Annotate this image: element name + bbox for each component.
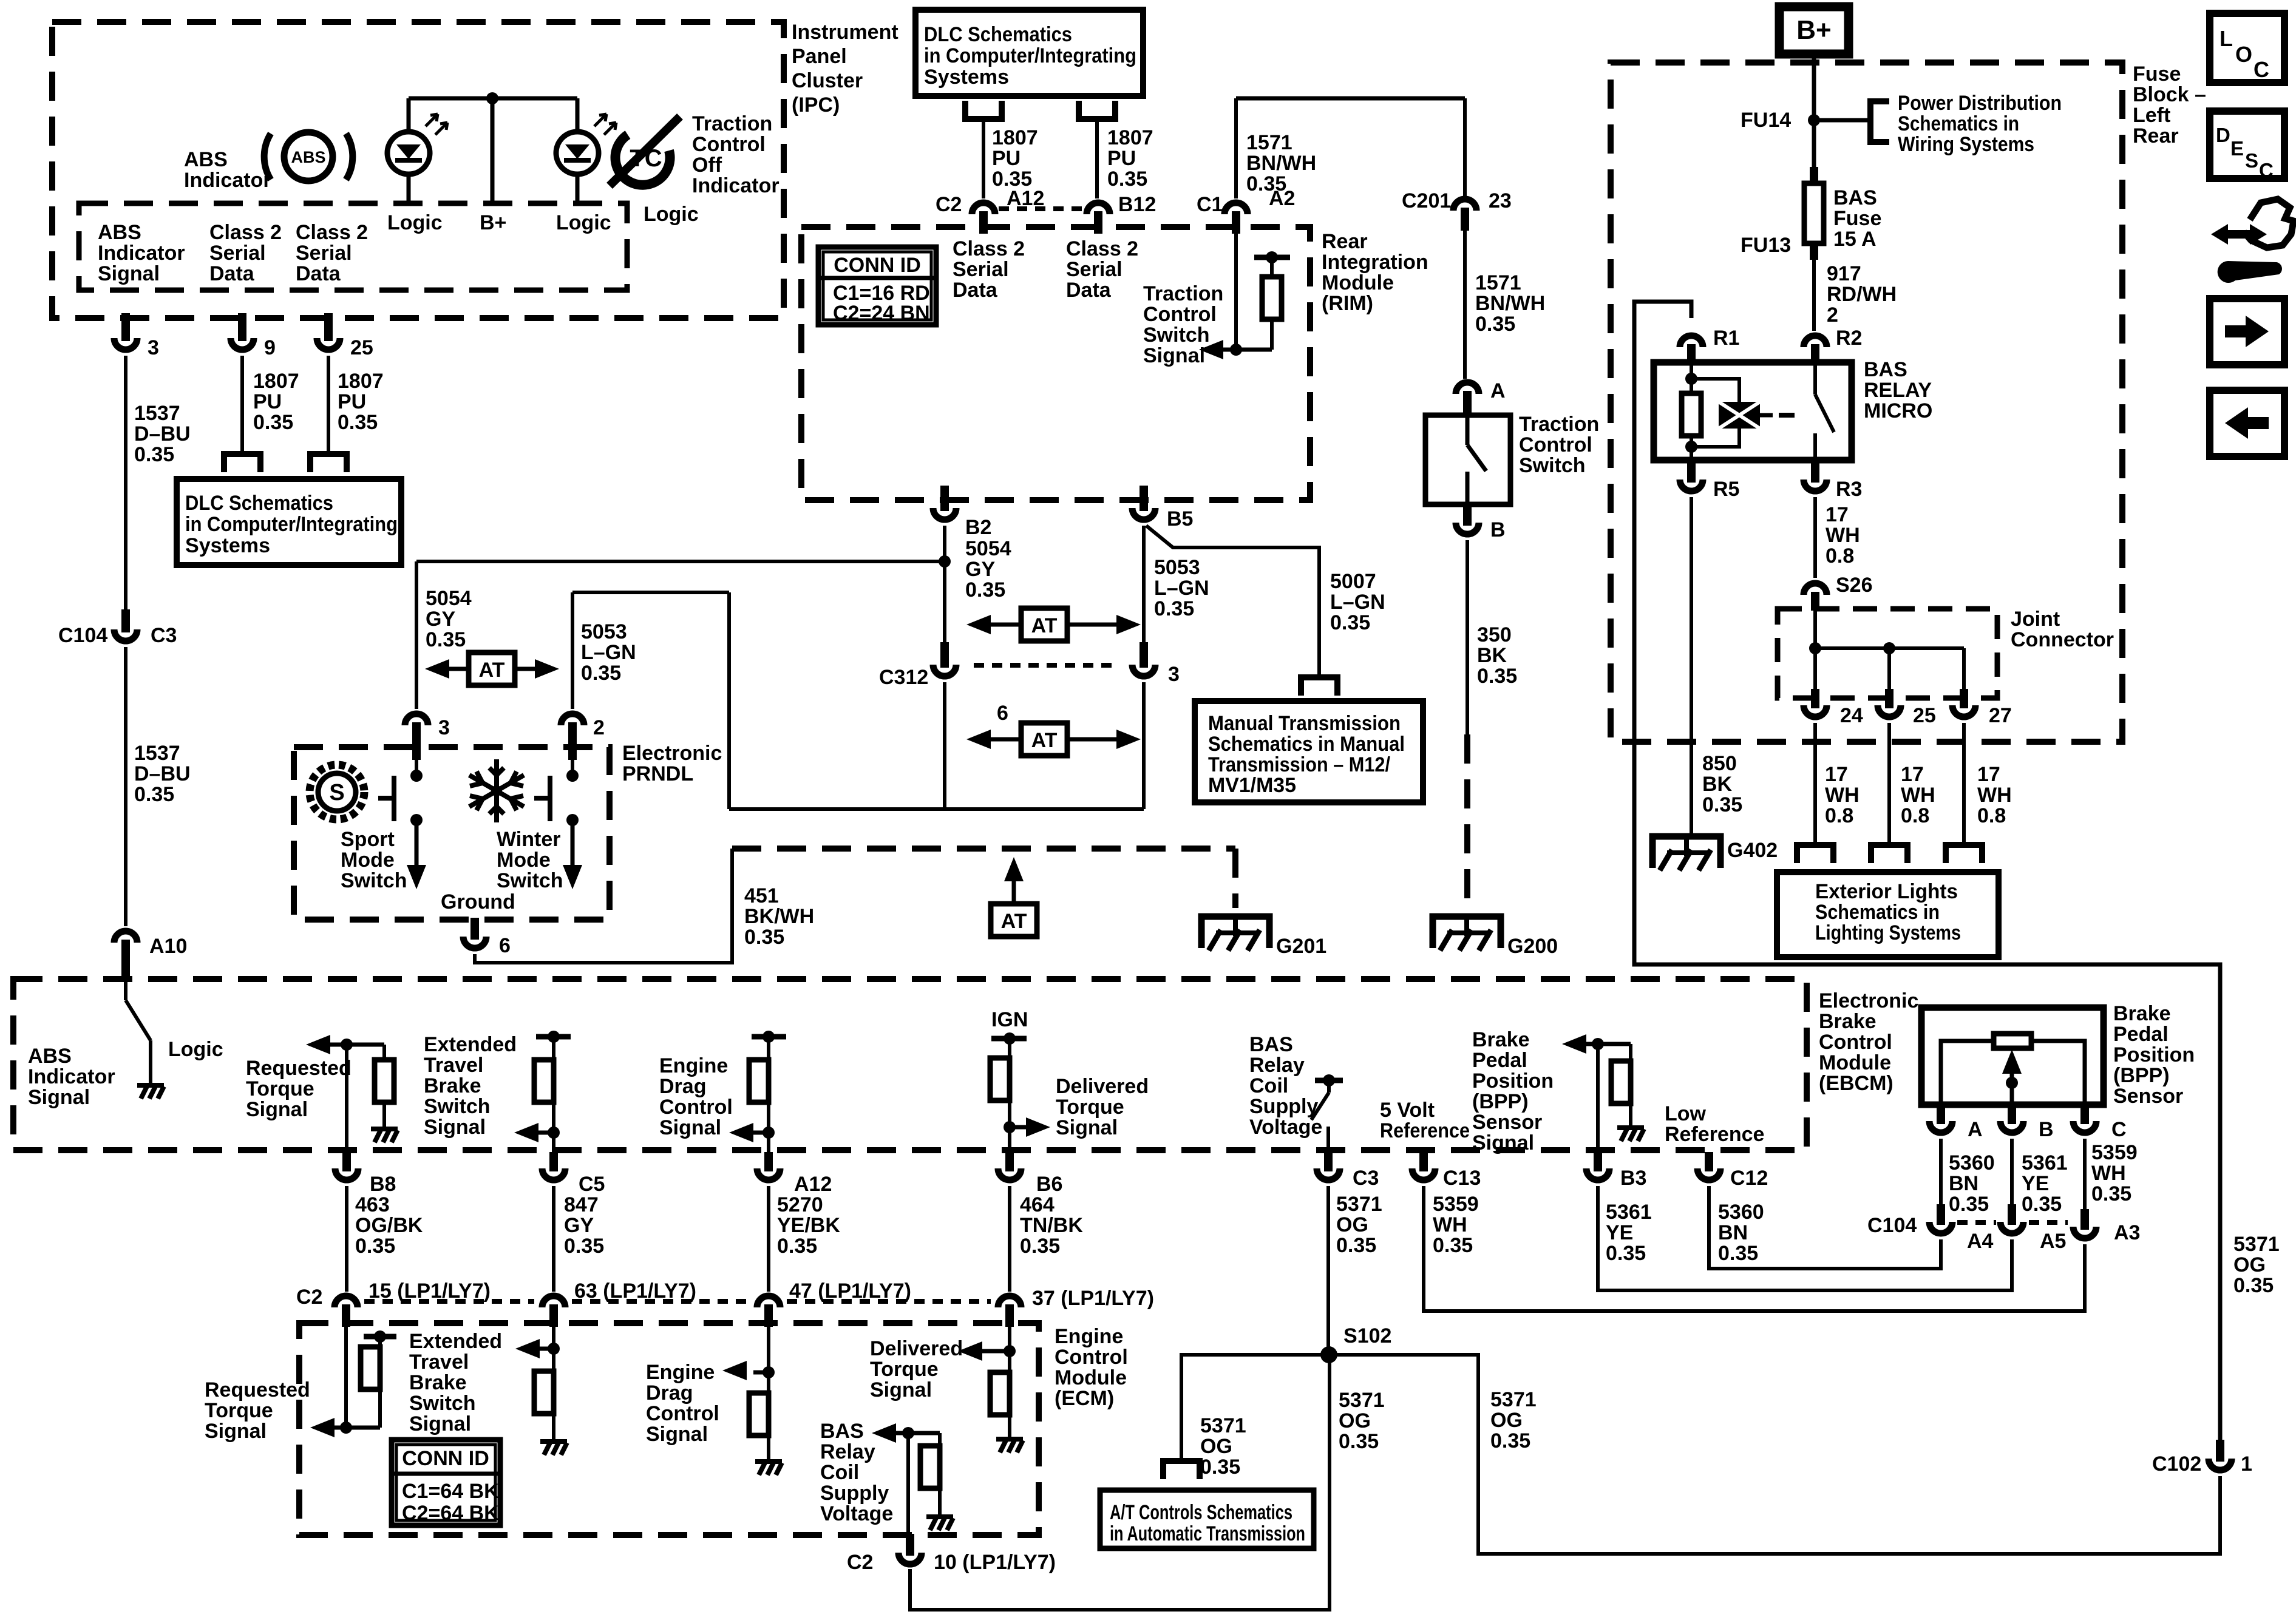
connector RIM pin B5 bbox=[1140, 486, 1148, 511]
wire 1571 BN/WH drop to C201 bbox=[1463, 98, 1467, 200]
ground G200 bbox=[1433, 917, 1501, 951]
connector EBCM pin A12 bbox=[764, 1152, 773, 1171]
svg-text:FU13: FU13 bbox=[1741, 234, 1791, 257]
off-page pointer bracket to DLC box (left) bbox=[224, 454, 260, 472]
BPP potentiometer bbox=[1941, 1041, 1994, 1105]
wire 1537 D-BU lower bbox=[124, 647, 127, 926]
connector interface line C2-B12 bbox=[999, 206, 1082, 211]
wire 1807 PU to C2/A12 bbox=[982, 119, 985, 198]
svg-text:Ground: Ground bbox=[441, 890, 515, 913]
svg-text:G201: G201 bbox=[1276, 935, 1326, 958]
CONN ID table (RIM) bbox=[818, 247, 936, 325]
svg-text:A: A bbox=[1490, 379, 1506, 402]
Engine Control Module (ECM) dashed box bbox=[299, 1323, 1039, 1535]
svg-text:C312: C312 bbox=[879, 666, 928, 689]
in-line connector C312 bbox=[974, 663, 1115, 668]
svg-text:10 (LP1/LY7): 10 (LP1/LY7) bbox=[934, 1551, 1056, 1574]
IPC inner connector dashed box bbox=[79, 203, 627, 290]
svg-text:C: C bbox=[2111, 1118, 2127, 1141]
wire 5054 crossover run bbox=[416, 560, 945, 563]
relay link dashes bbox=[1779, 413, 1805, 418]
svg-text:S: S bbox=[2245, 149, 2258, 172]
ground G402 bbox=[1652, 836, 1720, 870]
traction control switch blade bbox=[1466, 415, 1470, 445]
connector C104 pin A4 bbox=[1937, 1204, 1945, 1225]
wire BPP B to C104 bbox=[2010, 1139, 2014, 1212]
svg-text:C1=64 BK: C1=64 BK bbox=[402, 1480, 499, 1503]
wire 350 BK bbox=[1466, 540, 1469, 734]
svg-text:S: S bbox=[329, 780, 344, 805]
wire 5371 OG to A/T controls bbox=[1181, 1355, 1329, 1459]
splice S26 bbox=[1811, 592, 1819, 611]
connector EBCM pin C12 bbox=[1705, 1152, 1713, 1171]
svg-text:6: 6 bbox=[997, 702, 1008, 725]
legend adjust icon bbox=[2211, 199, 2294, 283]
svg-text:FU14: FU14 bbox=[1741, 109, 1791, 132]
svg-text:C13: C13 bbox=[1443, 1167, 1481, 1190]
svg-text:C1: C1 bbox=[1197, 193, 1223, 216]
wire 17 WH bbox=[1813, 497, 1817, 578]
svg-text:Logic: Logic bbox=[387, 211, 443, 234]
svg-text:AT: AT bbox=[1031, 614, 1058, 637]
connector C104 pin A3 bbox=[2080, 1209, 2089, 1230]
wire B+ feed bbox=[1812, 54, 1816, 175]
arrow traction control switch signal bbox=[1199, 340, 1223, 359]
off-page pointer bracket to manual transmission box bbox=[1301, 677, 1337, 696]
svg-text:D: D bbox=[2216, 124, 2230, 146]
pointer bracket exterior lights (27) bbox=[1946, 845, 1982, 863]
svg-text:3: 3 bbox=[1168, 663, 1180, 686]
connector C1 pin A2 bbox=[1232, 211, 1240, 234]
wire 17 WH pin 24 down bbox=[1813, 723, 1817, 844]
pointer bracket exterior lights (24) bbox=[1797, 845, 1833, 863]
connector pin 63 bbox=[549, 1304, 558, 1327]
svg-text:9: 9 bbox=[264, 336, 276, 359]
connector pin 25 of IPC bbox=[324, 313, 333, 341]
ground bbox=[926, 1517, 953, 1530]
connector RIM pin B2 bbox=[940, 486, 949, 511]
Electronic Brake Control Module (EBCM) dashed box bbox=[13, 979, 1807, 1150]
ground bbox=[1617, 1128, 1644, 1141]
ground bbox=[540, 1442, 567, 1455]
splice S102 bbox=[1320, 1346, 1337, 1363]
wire below C312-6 bbox=[943, 682, 946, 809]
svg-text:AT: AT bbox=[479, 659, 505, 682]
wire 5371 OG right branch bbox=[1329, 1355, 2220, 1554]
connector C201 pin 23 bbox=[1461, 208, 1469, 231]
connector C312 pin 3 bbox=[1140, 642, 1148, 668]
legend LOC box bbox=[2210, 13, 2284, 83]
winter mode snowflake icon bbox=[469, 759, 524, 822]
legend DESC box bbox=[2210, 111, 2284, 178]
junction bbox=[1808, 114, 1820, 126]
svg-text:B12: B12 bbox=[1118, 193, 1156, 216]
svg-text:23: 23 bbox=[1489, 189, 1512, 212]
svg-text:27: 27 bbox=[1989, 704, 2012, 727]
wire A2 to junction bbox=[1234, 234, 1238, 350]
connector pin 9 of IPC bbox=[238, 313, 246, 341]
wire 5359 WH return to C13 bbox=[1424, 1186, 2085, 1311]
svg-text:A5: A5 bbox=[2040, 1230, 2066, 1253]
svg-text:C12: C12 bbox=[1730, 1167, 1768, 1190]
Instrument Panel Cluster (IPC) dashed box bbox=[52, 22, 784, 318]
connector relay pin R3 bbox=[1811, 461, 1819, 483]
svg-text:R1: R1 bbox=[1713, 327, 1739, 350]
connector pin B12 bbox=[1094, 211, 1102, 234]
AT designation box (upper) bbox=[469, 652, 515, 685]
svg-text:L: L bbox=[2220, 26, 2233, 51]
svg-text:A4: A4 bbox=[1967, 1230, 1994, 1253]
AT designation box (B2/B5 upper) bbox=[1021, 608, 1067, 641]
svg-text:25: 25 bbox=[350, 336, 373, 359]
dashed AT ground run bbox=[732, 846, 1235, 852]
svg-text:A3: A3 bbox=[2114, 1221, 2140, 1244]
wire 5053 top run bbox=[572, 591, 729, 594]
svg-text:C201: C201 bbox=[1402, 189, 1451, 212]
connector BPP pin A bbox=[1937, 1105, 1945, 1124]
wire 5371 OG riser to C2-10 bbox=[910, 1355, 1330, 1610]
connector EBCM pin C13 bbox=[1419, 1152, 1428, 1171]
connector pin 25 bbox=[1885, 689, 1894, 708]
junction bbox=[1230, 344, 1242, 356]
wire 5054 B2 to C312-6 bbox=[943, 526, 946, 654]
svg-text:A: A bbox=[1968, 1118, 1983, 1141]
wire resistor to junction bbox=[1270, 319, 1274, 350]
fuse FU14/FU13 BAS Fuse 15A bbox=[1810, 167, 1818, 183]
svg-text:C2: C2 bbox=[936, 193, 962, 216]
svg-text:C: C bbox=[2259, 159, 2274, 181]
svg-text:A10: A10 bbox=[149, 935, 187, 958]
svg-text:C: C bbox=[2254, 57, 2269, 82]
wire 5054 drop to PRNDL pin 3 bbox=[415, 561, 418, 709]
wire B+ drop bbox=[491, 98, 495, 203]
wire BPP C to C104 bbox=[2083, 1139, 2087, 1212]
connector C312 pin 6 bbox=[940, 642, 949, 668]
svg-text:37 (LP1/LY7): 37 (LP1/LY7) bbox=[1032, 1287, 1154, 1310]
wire 451 BK/WH ground path bbox=[475, 849, 732, 963]
svg-text:Logic: Logic bbox=[168, 1038, 223, 1061]
connector PRNDL pin 2 bbox=[568, 722, 577, 760]
terminator bar bbox=[1254, 255, 1290, 260]
DLC Schematics reference box (left) bbox=[177, 479, 401, 565]
drop pin 27 bbox=[1962, 648, 1966, 689]
connector relay pin R2 bbox=[1811, 344, 1819, 364]
wire 17 WH pin 25 down bbox=[1887, 723, 1891, 844]
dashed drop to G201 bbox=[1232, 849, 1238, 908]
wire 1571 BN/WH top run bbox=[1236, 97, 1465, 101]
Brake Pedal Position (BPP) Sensor box bbox=[1921, 1008, 2104, 1105]
junction 5054 split bbox=[939, 555, 951, 568]
svg-text:ABS: ABS bbox=[291, 148, 325, 166]
connector EBCM pin B8 bbox=[342, 1152, 351, 1171]
connector traction switch pin B bbox=[1463, 504, 1472, 526]
dashed continuation to G200 bbox=[1464, 734, 1470, 908]
svg-text:Logic: Logic bbox=[644, 203, 699, 226]
svg-text:Logic: Logic bbox=[556, 211, 611, 234]
wire to signal arrow bbox=[1209, 348, 1272, 352]
connector BPP pin B bbox=[2008, 1105, 2016, 1124]
svg-text:E: E bbox=[2230, 137, 2244, 160]
resistor traction control switch signal pull-up bbox=[1262, 277, 1282, 319]
svg-text:A12: A12 bbox=[794, 1173, 832, 1196]
svg-text:C2: C2 bbox=[296, 1286, 322, 1309]
wire 850 BK to G402 bbox=[1690, 497, 1693, 836]
connector traction switch pin A bbox=[1463, 391, 1472, 415]
wire BPP A to C104 bbox=[1939, 1139, 1943, 1212]
wire 5053 riser bbox=[727, 592, 731, 809]
connector pin 47 bbox=[764, 1304, 773, 1327]
svg-text:CONN ID: CONN ID bbox=[834, 254, 921, 277]
Fuse Block - Left Rear dashed box bbox=[1611, 63, 2122, 742]
svg-text:G402: G402 bbox=[1727, 839, 1778, 862]
R1 feed loop bbox=[1634, 302, 2220, 1448]
svg-text:B: B bbox=[2039, 1118, 2054, 1141]
svg-text:S102: S102 bbox=[1343, 1324, 1391, 1347]
wire 5053 drop to PRNDL pin 2 bbox=[571, 592, 574, 709]
connector C2 pin 15 bbox=[342, 1304, 350, 1327]
wire 5361 YE return to B3 bbox=[1598, 1186, 2012, 1290]
svg-text:2: 2 bbox=[593, 716, 605, 739]
connector pin 3 of IPC bbox=[121, 313, 130, 341]
svg-text:C2: C2 bbox=[847, 1551, 873, 1574]
connector pin 24 bbox=[1811, 689, 1819, 708]
svg-text:C3: C3 bbox=[151, 624, 177, 647]
svg-text:Exterior LightsSchematics inLi: Exterior LightsSchematics inLighting Sys… bbox=[1815, 880, 1961, 944]
svg-text:R2: R2 bbox=[1836, 327, 1862, 350]
svg-text:O: O bbox=[2235, 42, 2252, 67]
winter mode switch bbox=[571, 760, 574, 774]
legend right-arrow box bbox=[2210, 299, 2284, 365]
CONN ID table (ECM) bbox=[392, 1440, 500, 1525]
relay switch blade bbox=[1813, 362, 1817, 395]
ground (logic) bbox=[137, 1085, 164, 1099]
svg-text:C3: C3 bbox=[1353, 1167, 1379, 1190]
connector relay pin R5 bbox=[1687, 461, 1696, 483]
svg-text:C104: C104 bbox=[58, 624, 107, 647]
svg-text:B8: B8 bbox=[370, 1173, 396, 1196]
wire 1537 D-BU from pin 3 bbox=[124, 356, 127, 609]
ABS indicator icon bbox=[264, 132, 353, 181]
drop pin 25 bbox=[1887, 648, 1891, 689]
pointer bracket exterior lights (25) bbox=[1871, 845, 1907, 863]
BAS RELAY MICRO box bbox=[1654, 362, 1852, 460]
LED indicator lamp (right) bbox=[556, 98, 616, 203]
svg-text:C104: C104 bbox=[1867, 1214, 1917, 1237]
wire 1571 BN/WH drop to C1/A2 bbox=[1234, 98, 1238, 198]
LED indicator lamp (left) bbox=[387, 98, 447, 203]
off-page pointer bracket below DLC box (right) bbox=[1079, 101, 1115, 119]
svg-text:AT: AT bbox=[1001, 910, 1027, 933]
svg-text:C2=64 BK: C2=64 BK bbox=[402, 1502, 499, 1525]
connector relay pin R1 bbox=[1687, 344, 1696, 364]
wire to power distribution pointer bbox=[1814, 118, 1870, 123]
svg-text:25: 25 bbox=[1913, 704, 1936, 727]
svg-text:C102: C102 bbox=[2152, 1452, 2201, 1476]
svg-text:C5: C5 bbox=[579, 1173, 605, 1196]
connector EBCM pin C3 bbox=[1324, 1152, 1333, 1171]
off-page pointer bracket below DLC box (left) bbox=[965, 101, 1002, 119]
wire top bus between lamps bbox=[409, 97, 577, 101]
svg-text:B2: B2 bbox=[965, 516, 991, 539]
svg-text:B6: B6 bbox=[1036, 1173, 1062, 1196]
svg-text:3: 3 bbox=[438, 716, 450, 739]
wire 17 WH pin 27 down bbox=[1962, 723, 1966, 844]
relay coil circuit bbox=[1690, 362, 1693, 393]
ground G201 bbox=[1201, 917, 1269, 951]
connector EBCM pin C5 bbox=[549, 1152, 558, 1171]
in-line connector C104 pin C3 bbox=[121, 609, 130, 632]
AT designation box (below C312) bbox=[1021, 723, 1067, 756]
wire 1807 PU to B12 bbox=[1095, 119, 1099, 198]
junction bbox=[486, 92, 498, 104]
Traction Control Switch box bbox=[1425, 415, 1510, 504]
connector C2 pin 10 bbox=[906, 1534, 914, 1556]
svg-text:G200: G200 bbox=[1507, 935, 1558, 958]
Joint Connector dashed box bbox=[1778, 609, 1997, 698]
pointer bracket A/T controls bbox=[1163, 1461, 1200, 1479]
svg-text:R5: R5 bbox=[1713, 478, 1739, 501]
AT designation box (ground) bbox=[991, 904, 1037, 937]
ground bbox=[755, 1462, 782, 1475]
wire 1807 PU from pin 9 bbox=[240, 356, 244, 454]
svg-text:24: 24 bbox=[1840, 704, 1863, 727]
off-page pointer bracket to DLC box (right) bbox=[310, 454, 347, 472]
Electronic PRNDL dashed box bbox=[294, 747, 610, 920]
svg-text:C2=24 BN: C2=24 BN bbox=[833, 302, 930, 325]
svg-text:AT: AT bbox=[1031, 729, 1058, 752]
Exterior Lights Schematics reference box bbox=[1777, 872, 1999, 957]
connector pin 37 bbox=[1005, 1304, 1014, 1327]
svg-text:1: 1 bbox=[2241, 1452, 2252, 1476]
svg-text:CONN ID: CONN ID bbox=[402, 1447, 489, 1470]
Rear Integration Module (RIM) dashed box bbox=[801, 227, 1310, 500]
wire to resistor bbox=[1270, 257, 1274, 277]
Traction Control Off indicator icon bbox=[610, 117, 680, 186]
pointer bracket Power Distribution bbox=[1870, 101, 1889, 142]
connector EBCM pin A10 bbox=[121, 940, 130, 982]
wire 5053 bottom run bbox=[729, 807, 1144, 811]
svg-text:B5: B5 bbox=[1167, 507, 1193, 530]
connector pin 27 bbox=[1960, 689, 1968, 708]
svg-text:S26: S26 bbox=[1836, 574, 1873, 597]
wire inside joint connector bbox=[1813, 611, 1817, 689]
svg-text:B: B bbox=[1490, 518, 1506, 541]
in-line connector C102 pin 1 bbox=[2216, 1440, 2224, 1462]
wire 5371 OG C3 to S102 bbox=[1326, 1186, 1330, 1355]
wires EBCM to ECM connectors bbox=[345, 1186, 348, 1292]
svg-text:A/T Controls Schematicsin Auto: A/T Controls Schematicsin Automatic Tran… bbox=[1110, 1501, 1305, 1545]
wire 5360 BN return to C12 bbox=[1709, 1186, 1941, 1269]
connector C104 pin A5 bbox=[2008, 1204, 2016, 1225]
sport mode gear icon bbox=[310, 765, 364, 819]
ABS indicator logic switch bbox=[124, 982, 127, 1000]
Manual Transmission Schematics reference box bbox=[1195, 701, 1423, 802]
A/T Controls Schematics reference box bbox=[1100, 1490, 1314, 1548]
wire 1807 PU from pin 25 bbox=[327, 356, 330, 454]
svg-text:R3: R3 bbox=[1836, 478, 1862, 501]
svg-text:6: 6 bbox=[499, 934, 511, 957]
svg-text:BASFuse15 A: BASFuse15 A bbox=[1833, 186, 1881, 251]
sport mode switch bbox=[415, 760, 418, 774]
connector C2 pin A12 bbox=[979, 211, 988, 234]
wire 5007 L-GN branch bbox=[1146, 526, 1319, 676]
legend left-arrow box bbox=[2210, 390, 2284, 456]
ground bbox=[996, 1439, 1023, 1452]
connector EBCM pin B6 bbox=[1005, 1152, 1014, 1171]
wire 463 OG/BK inside EBCM bbox=[345, 1045, 348, 1154]
svg-text:3: 3 bbox=[148, 336, 159, 359]
svg-text:A2: A2 bbox=[1269, 187, 1295, 210]
ground bbox=[371, 1129, 398, 1142]
wire 1571 BN/WH to traction switch bbox=[1463, 231, 1467, 379]
svg-text:B+: B+ bbox=[1796, 15, 1831, 45]
DLC Schematics reference box (top) bbox=[915, 10, 1143, 96]
connector BPP pin C bbox=[2080, 1105, 2089, 1124]
wire 917 RD/WH bbox=[1812, 260, 1816, 331]
connector EBCM pin B3 bbox=[1594, 1152, 1602, 1171]
wire 5053 B5 to C312-3 bbox=[1142, 526, 1146, 654]
svg-text:IGN: IGN bbox=[991, 1008, 1028, 1031]
B+ power box bbox=[1779, 7, 1849, 54]
connector PRNDL pin 6 bbox=[470, 918, 479, 940]
connector PRNDL pin 3 bbox=[412, 722, 421, 760]
joint connector bus bbox=[1815, 646, 1964, 650]
svg-text:B3: B3 bbox=[1620, 1167, 1646, 1190]
wire below C312-3 bbox=[1142, 682, 1146, 809]
svg-text:B+: B+ bbox=[480, 211, 506, 234]
